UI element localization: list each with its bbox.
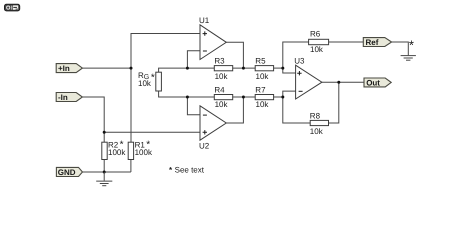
svg-text:10k: 10k: [310, 127, 324, 136]
svg-text:R3: R3: [214, 57, 225, 66]
svg-text:-In: -In: [58, 93, 68, 102]
svg-text:U1: U1: [199, 16, 210, 25]
svg-text:Ref: Ref: [366, 38, 379, 47]
svg-text:100k: 100k: [108, 148, 126, 157]
svg-text:R7: R7: [255, 86, 266, 95]
svg-text:100k: 100k: [135, 148, 153, 157]
svg-text:GND: GND: [58, 168, 76, 177]
svg-text:10k: 10k: [215, 72, 229, 81]
svg-text:U2: U2: [199, 141, 210, 150]
svg-text:R8: R8: [310, 112, 321, 121]
svg-text:R6: R6: [310, 30, 321, 39]
svg-text:Out: Out: [366, 78, 380, 87]
svg-text:*See text: *See text: [169, 166, 205, 175]
svg-text:10k: 10k: [138, 79, 152, 88]
svg-text:U3: U3: [294, 57, 305, 66]
svg-text:R4: R4: [214, 86, 225, 95]
svg-text:*: *: [409, 37, 414, 52]
svg-text:+In: +In: [58, 64, 70, 73]
svg-text:10k: 10k: [256, 72, 270, 81]
svg-text:10k: 10k: [256, 100, 270, 109]
svg-text:10k: 10k: [215, 100, 229, 109]
svg-text:10k: 10k: [310, 45, 324, 54]
svg-text:R5: R5: [255, 57, 266, 66]
